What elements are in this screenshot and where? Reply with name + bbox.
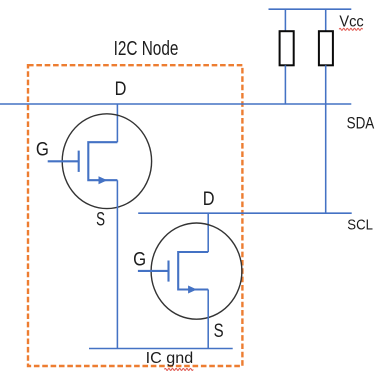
svg-text:S: S	[214, 321, 224, 342]
wire resistor R2 top stem	[325, 9, 327, 31]
svg-text:SCL: SCL	[347, 217, 373, 234]
wire SDA bus	[0, 103, 351, 105]
wire resistor R2 bottom stem to SCL	[325, 65, 327, 213]
wire SCL bus	[138, 212, 352, 214]
spell-check underline under gnd	[164, 368, 193, 370]
transistor Q2 source arrow	[188, 286, 197, 294]
svg-text:I2C Node: I2C Node	[114, 38, 179, 60]
wire Q2 drain stem	[207, 213, 209, 252]
wire Vcc top rail	[269, 8, 352, 10]
wire Q1 drain stem	[116, 104, 118, 142]
svg-text:S: S	[96, 209, 105, 230]
wire resistor R1 bottom stem to SDA	[284, 65, 286, 104]
wire Q2 source down to IC gnd	[207, 290, 209, 349]
transistor Q1 channel symbol	[88, 142, 117, 180]
transistor Q2 channel symbol	[178, 252, 208, 290]
wire Q1 gate lead	[48, 160, 79, 162]
svg-text:SDA: SDA	[347, 113, 375, 132]
wire Q1 source down to IC gnd	[116, 180, 118, 348]
svg-text:G: G	[36, 140, 49, 161]
resistor R1 (SDA pull-up)	[280, 31, 294, 65]
resistor R2 (SCL pull-up)	[319, 31, 333, 65]
spell-check underline under Vcc	[339, 28, 362, 30]
transistor Q1 source arrow	[99, 176, 108, 184]
svg-text:D: D	[115, 79, 127, 100]
svg-text:D: D	[203, 189, 215, 210]
transistor Q1 body circle	[62, 114, 151, 209]
transistor Q2 gate bar	[167, 261, 169, 282]
wire resistor R1 top stem	[284, 9, 286, 31]
svg-text:IC gnd: IC gnd	[146, 350, 194, 367]
wire Q2 gate lead	[138, 270, 169, 272]
transistor Q1 gate bar	[78, 151, 80, 172]
transistor Q2 body circle	[151, 223, 242, 319]
svg-text:G: G	[133, 249, 146, 270]
I2C Node boundary box (dashed)	[28, 65, 242, 366]
wire IC gnd rail	[89, 348, 233, 350]
